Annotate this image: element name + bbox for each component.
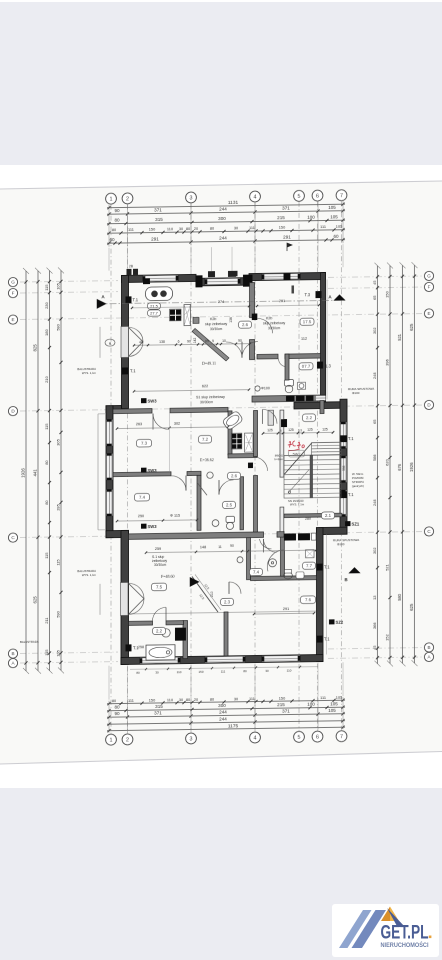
svg-text:GET.PL: GET.PL [381, 922, 429, 943]
svg-text:NIERUCHOMOŚCI: NIERUCHOMOŚCI [381, 940, 429, 949]
